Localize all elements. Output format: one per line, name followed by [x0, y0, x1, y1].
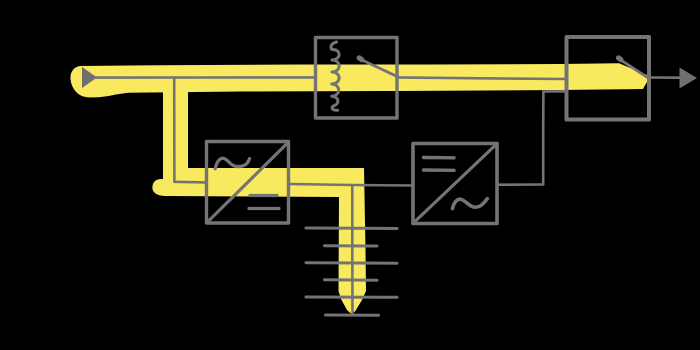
wire: input bus to bypass box: [96, 76, 316, 79]
switch blade in output box: [620, 60, 649, 79]
wire: bypass box to output switch box: [398, 77, 566, 79]
switch blade in bypass box: [361, 60, 398, 77]
battery plate 6 (short): [326, 314, 379, 317]
switch contact blob in output box: [619, 58, 621, 60]
wire: rectifier to inverter: [289, 184, 413, 186]
switch contact blob in bypass box: [359, 58, 362, 60]
rectifier DC symbol line 2: [249, 207, 279, 210]
battery plate 2 (short): [325, 244, 378, 247]
wire: riser up to output switch box: [543, 91, 565, 184]
highlight: branch down through rectifier to battery: [152, 68, 366, 314]
output arrow: [680, 68, 698, 89]
input arrow: [82, 67, 97, 88]
wire: tee branch down to rectifier: [174, 78, 206, 183]
rectifier box (AC/DC): [207, 142, 289, 224]
inverter DC symbol line 2: [424, 168, 455, 172]
inverter DC symbol line 1: [424, 156, 455, 160]
wire: battery drop: [351, 186, 354, 314]
battery plate 1 (long): [306, 227, 397, 231]
wire: inverter output right: [497, 183, 543, 186]
output switch box: [567, 37, 650, 120]
rectifier AC tilde symbol: [215, 158, 249, 169]
highlight: mains power path along top bus: [70, 63, 647, 97]
battery plate 5 (long): [306, 296, 397, 299]
wire: output stub: [649, 76, 681, 79]
inverter diagonal: [416, 147, 494, 221]
inductor in bypass box: [331, 42, 339, 110]
rectifier diagonal: [210, 144, 287, 220]
rectifier DC symbol line 1: [250, 194, 277, 197]
inverter AC tilde symbol: [453, 199, 488, 209]
battery plate 3 (long): [306, 261, 397, 264]
bypass box (inductor + switch): [316, 38, 398, 119]
inverter box (DC/AC): [413, 144, 497, 224]
battery plate 4 (short): [325, 278, 378, 281]
